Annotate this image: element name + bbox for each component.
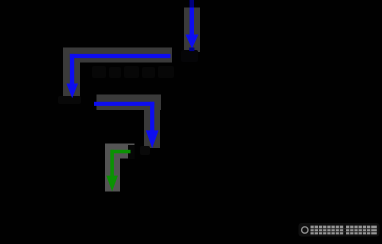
dark stub of top arrow above band <box>190 0 195 8</box>
blue arrow A3 (right, pointing down) <box>146 102 159 148</box>
blue arrow A2 (left, pointing down) <box>66 54 78 98</box>
gray band behind lower horizontal line <box>97 95 162 111</box>
black notch on green band <box>128 145 135 159</box>
watermark @xitu juejin tech community <box>299 223 380 237</box>
gray band behind left vertical arrow <box>63 48 80 98</box>
gray band behind right vertical arrow <box>144 95 160 149</box>
blue lower horizontal wire <box>94 102 154 106</box>
gray band behind green arrow vertical part <box>105 144 120 192</box>
green arrow (pointing down) <box>106 150 118 192</box>
gray band behind green arrow horizontal part <box>105 144 135 159</box>
blue upper horizontal wire <box>70 54 170 58</box>
green arrow horizontal wire <box>111 150 131 154</box>
gray band behind upper horizontal line <box>63 48 172 63</box>
faint text remnants row <box>92 66 174 78</box>
faint remnants under left arrow <box>58 96 81 104</box>
faint remnants right of green band <box>140 146 150 155</box>
faint remnants below top arrow tip <box>181 50 198 62</box>
blue arrow A1 (top, pointing down) <box>185 8 198 52</box>
gray band behind top arrow <box>184 8 200 53</box>
